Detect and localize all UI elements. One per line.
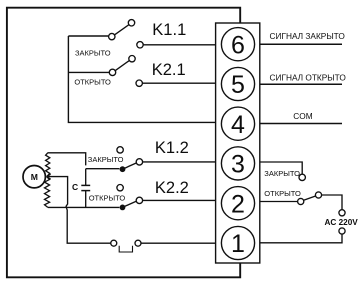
contact K2.2 [117,185,143,211]
switch K1.1 [109,20,144,48]
svg-text:3: 3 [231,151,245,179]
wire K2.1 to terminal 5 [143,82,216,84]
capacitor C plates [81,185,90,190]
wire terminal 5 signal open [260,83,342,85]
svg-text:ОТКРЫТО: ОТКРЫТО [74,77,111,86]
svg-text:K1.1: K1.1 [152,21,186,39]
wire winding top to closed node [48,153,86,166]
wire winding bottom to K2.2 [48,206,120,208]
svg-text:COM: COM [293,111,312,121]
svg-text:2: 2 [231,190,245,218]
wire AC source to terminal 1 [260,234,342,243]
wire terminal 3 zakryto out [260,162,302,174]
svg-text:ЗАКРЫТО: ЗАКРЫТО [75,48,111,57]
svg-text:ЗАКРЫТО: ЗАКРЫТО [88,155,124,164]
svg-text:ЗАКРЫТО: ЗАКРЫТО [264,169,300,178]
terminal 6 [221,28,254,61]
terminal 5 [221,67,254,100]
switch K2.1 [109,56,142,87]
node closed terminal circle [299,174,305,180]
wire capacitor top branch [85,169,87,185]
wire bus to K1.1 [68,35,108,37]
terminal 3 [221,147,254,180]
thermal protector TP [111,240,141,252]
terminal 2 [221,187,254,220]
svg-text:C: C [72,182,78,192]
wire terminal 6 signal closed [260,43,342,45]
svg-text:K2.2: K2.2 [155,179,189,197]
svg-text:M: M [31,172,38,182]
motor M [23,166,45,188]
svg-text:6: 6 [231,31,245,59]
svg-text:4: 4 [231,111,245,139]
svg-text:1: 1 [231,230,245,258]
wire bus to K2.1 [68,71,109,73]
svg-text:ОТКРЫТО: ОТКРЫТО [264,189,301,198]
svg-text:СИГНАЛ ЗАКРЫТО: СИГНАЛ ЗАКРЫТО [270,31,346,41]
enclosure border [7,8,240,278]
winding lower [45,177,50,208]
wire K1.2 to terminal 3 [143,161,216,163]
wire TP to terminal 1 [141,242,216,244]
AC source lower terminal [339,228,345,234]
wiper arrow junction [47,174,51,179]
wire capacitor bottom branch [85,191,87,208]
wire switch to AC source [322,195,342,210]
external switch otkryto [298,192,322,205]
svg-text:СИГНАЛ ОТКРЫТО: СИГНАЛ ОТКРЫТО [270,73,347,83]
terminal 4 [221,107,254,140]
svg-text:ОТКРЫТО: ОТКРЫТО [89,194,126,203]
AC source upper terminal [339,210,345,216]
wire terminal 2 otkryto out [260,201,298,203]
wire bus COM vertical [68,36,215,122]
contact K1.2 [117,147,143,172]
wire motor common [47,177,111,244]
terminal block outline [216,23,260,263]
svg-text:K1.2: K1.2 [155,139,189,157]
svg-text:AC 220V: AC 220V [325,218,359,227]
svg-text:K2.1: K2.1 [152,61,186,79]
terminal 1 [221,226,254,259]
winding upper [46,153,50,177]
wire K1.1 to terminal 6 [143,44,215,46]
wire terminal 4 COM [260,123,342,125]
svg-text:5: 5 [231,71,245,99]
wire K2.2 to terminal 2 [143,199,216,201]
wire node to K1.2 [86,168,120,170]
